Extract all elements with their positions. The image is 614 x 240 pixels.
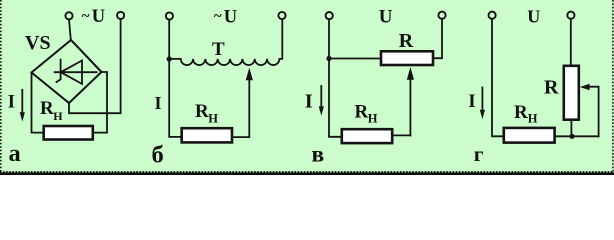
potentiometer R (v) [381,51,433,65]
svg-text:г: г [474,142,484,166]
junction dot g [569,134,574,139]
diode triangle [61,61,82,84]
resistor RH (g) [504,128,555,143]
svg-text:~: ~ [82,8,90,24]
svg-text:H: H [528,111,538,125]
current arrow (a) [21,90,23,113]
svg-text:U: U [224,7,237,27]
terminal circle g-left [489,12,496,19]
terminal circle v-left [326,12,333,19]
svg-text:R: R [40,98,54,119]
wire v: left vertical [329,19,342,137]
resistor RH (a) [44,126,93,140]
wiper arrow g [580,84,590,90]
tap wire b with arrow to winding [232,80,249,137]
svg-text:R: R [514,102,528,123]
wire g: R bottom lead [570,120,572,137]
wire a: bridge right corner to load right [93,72,107,133]
wire a: bridge left corner down to load [32,73,44,133]
terminal circle a-left [65,12,72,19]
terminal circle a-right [117,12,124,19]
svg-text:U: U [379,7,393,28]
svg-text:R: R [195,101,209,122]
rheostat R (g) vertical box [564,66,579,120]
svg-text:I: I [155,93,162,113]
current arrow (v) [320,86,322,107]
wire g: bottom from RH to wiper return [555,135,599,137]
svg-text:VS: VS [25,32,51,54]
wire v: RH right to wiper [392,134,410,136]
terminal circle v-right [438,12,445,19]
terminal circle g-right [567,12,574,19]
svg-text:I: I [8,92,15,112]
diode bridge VS (diamond) [32,40,102,103]
svg-text:R: R [544,77,559,99]
svg-text:R: R [355,102,369,123]
wire a: bridge bottom corner to right terminal [69,19,121,113]
svg-text:U: U [527,6,540,26]
svg-text:I: I [305,91,313,113]
svg-text:H: H [53,109,63,123]
svg-text:H: H [368,112,378,126]
svg-text:б: б [152,142,164,169]
svg-text:T: T [212,39,225,60]
diode cathode bar [57,60,61,82]
svg-text:в: в [312,141,325,167]
diode inside bridge: lead line [55,71,97,73]
svg-text:~: ~ [214,9,222,25]
svg-text:U: U [92,7,105,27]
svg-text:R: R [399,30,414,52]
wire g: right terminal down to R top [570,19,572,66]
svg-text:I: I [468,91,475,112]
wiper arrow v [409,80,411,136]
svg-text:а: а [9,140,21,167]
decorative page edges [0,0,2,175]
junction dot b [167,56,172,61]
wire a: left terminal to bridge top [69,19,71,40]
wire b: left vertical [169,19,182,136]
wire g: left vertical [492,19,504,137]
wire v: R right to right terminal [433,19,442,59]
resistor RH (v) [342,129,392,143]
junction dot v [326,56,331,61]
terminal circle b-right [278,12,285,19]
wire v: branch to potentiometer R [329,58,381,60]
current arrow (g) [481,88,483,111]
resistor RH (b) [182,128,232,142]
terminal circle b-left [166,12,173,19]
svg-text:H: H [208,112,218,126]
autotransformer T winding [169,19,282,65]
